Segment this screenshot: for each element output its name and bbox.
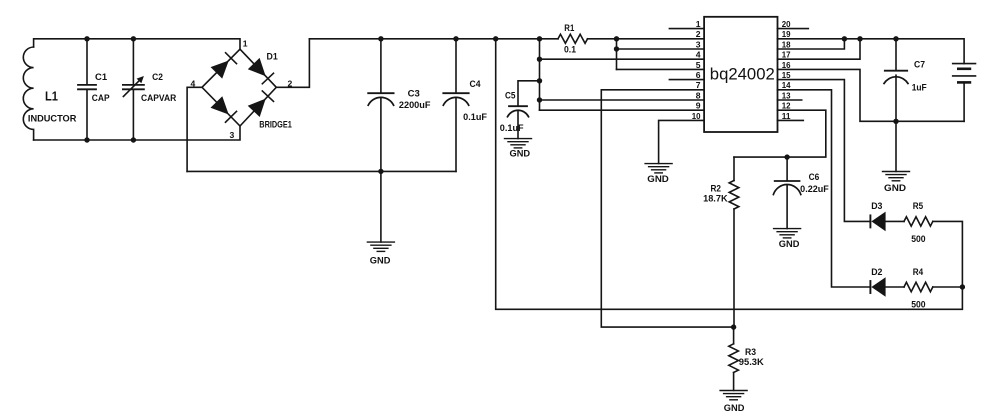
svg-text:19: 19 bbox=[782, 29, 791, 39]
wire C3 bottom to ground bbox=[380, 171, 382, 242]
svg-text:GND: GND bbox=[884, 183, 907, 193]
node dot pin8 tap bbox=[537, 97, 542, 102]
svg-text:0.1uF: 0.1uF bbox=[500, 123, 524, 133]
svg-text:R4: R4 bbox=[913, 267, 923, 277]
svg-text:C3: C3 bbox=[408, 89, 420, 99]
svg-text:0.1uF: 0.1uF bbox=[463, 112, 487, 122]
wire pin 10 to ground bbox=[659, 120, 705, 163]
svg-text:CAPVAR: CAPVAR bbox=[141, 93, 177, 103]
svg-text:1: 1 bbox=[243, 39, 248, 49]
pin 1 stub bbox=[669, 28, 704, 30]
label INDUCTOR bbox=[27, 113, 79, 123]
svg-text:13: 13 bbox=[782, 90, 791, 100]
diode D2 bbox=[870, 277, 904, 297]
svg-text:500: 500 bbox=[911, 300, 925, 310]
svg-text:500: 500 bbox=[911, 234, 925, 244]
svg-text:2: 2 bbox=[696, 29, 701, 39]
wire branch vertical x539 bbox=[539, 39, 541, 110]
svg-text:0.1: 0.1 bbox=[564, 45, 576, 55]
diode bridge bottom-left bbox=[211, 96, 237, 122]
wire bottom-left rail bbox=[34, 126, 240, 140]
svg-text:16: 16 bbox=[782, 60, 791, 70]
svg-text:GND: GND bbox=[510, 148, 531, 158]
node dot pin3 tap bbox=[614, 46, 619, 51]
wire pin 18 riser bbox=[778, 39, 845, 49]
node dot C5 tap bbox=[537, 78, 542, 83]
svg-text:GND: GND bbox=[370, 256, 391, 266]
node dot C2 bottom bbox=[131, 137, 136, 142]
svg-text:3: 3 bbox=[696, 39, 701, 49]
svg-text:7: 7 bbox=[696, 80, 701, 90]
svg-text:95.3K: 95.3K bbox=[739, 357, 765, 367]
svg-text:R1: R1 bbox=[564, 23, 574, 33]
diode bridge bottom-right bbox=[248, 91, 274, 117]
svg-text:18: 18 bbox=[782, 39, 791, 49]
node dot C2 top bbox=[131, 36, 136, 41]
svg-text:0.22uF: 0.22uF bbox=[800, 184, 829, 194]
node dot C1 top bbox=[84, 36, 89, 41]
resistor R5 bbox=[904, 217, 933, 226]
node dot D2 R4 junction bbox=[960, 284, 965, 289]
ground under R3 bbox=[720, 391, 747, 400]
wire pin12 line to C6 bbox=[786, 157, 788, 181]
wire bridge pin4 to lower rail bbox=[187, 87, 202, 171]
svg-text:8: 8 bbox=[696, 90, 701, 100]
resistor R4 bbox=[904, 282, 933, 291]
svg-text:2: 2 bbox=[288, 79, 293, 89]
ground under pin 10 bbox=[645, 164, 672, 173]
wire pin 17 riser bbox=[778, 39, 861, 59]
svg-text:D2: D2 bbox=[871, 267, 882, 277]
svg-text:D1: D1 bbox=[267, 51, 278, 61]
svg-text:5: 5 bbox=[696, 60, 701, 70]
svg-text:2200uF: 2200uF bbox=[399, 100, 431, 110]
svg-text:C1: C1 bbox=[95, 72, 107, 82]
svg-text:GND: GND bbox=[647, 174, 669, 184]
wire R5 to corner bbox=[933, 221, 963, 287]
wire pin 15 to D3 bbox=[778, 80, 871, 222]
svg-text:20: 20 bbox=[782, 19, 791, 29]
svg-text:C7: C7 bbox=[914, 59, 925, 69]
svg-text:11: 11 bbox=[782, 111, 791, 121]
diode D1 bridge top-right bbox=[248, 58, 274, 84]
wire top rail (bridge to R1) bbox=[309, 38, 558, 40]
svg-text:18.7K: 18.7K bbox=[703, 194, 728, 204]
node dot V+ vertical top bbox=[493, 36, 498, 41]
wire to pin 3 bbox=[617, 48, 705, 50]
wire to pin 5 bbox=[617, 68, 705, 70]
wire branch to pin 4 bbox=[540, 58, 705, 60]
wire R1 junction down to pin5 bbox=[616, 39, 618, 70]
bridge BRIDGE1 diamond bbox=[202, 49, 276, 126]
wire branch to pin 8 bbox=[540, 99, 705, 101]
svg-text:D3: D3 bbox=[871, 201, 882, 211]
ground under C7 bbox=[883, 172, 910, 181]
capacitor C2 (variable) bbox=[123, 39, 144, 140]
svg-text:4: 4 bbox=[696, 50, 701, 60]
capacitor C5 bbox=[508, 106, 529, 138]
diode bridge top-left bbox=[211, 53, 237, 79]
pin 11 stub bbox=[778, 119, 804, 121]
resistor R2 bbox=[729, 157, 739, 327]
capacitor C7 bbox=[884, 39, 908, 122]
wire pin 12 to R2 bbox=[734, 110, 826, 157]
wire pin 19 rail to battery bbox=[778, 39, 965, 64]
node dot branch top bbox=[537, 36, 542, 41]
wire lower mid rail bbox=[187, 170, 456, 172]
capacitor C3 bbox=[368, 39, 393, 172]
node dot pin17 riser bbox=[857, 36, 862, 41]
svg-text:R5: R5 bbox=[913, 201, 923, 211]
wire bridge pin2 to top rail bbox=[276, 39, 309, 88]
wire pin 16 to bottom rail bbox=[778, 69, 965, 121]
svg-text:INDUCTOR: INDUCTOR bbox=[28, 113, 77, 123]
node dot C4 top bbox=[453, 36, 458, 41]
svg-text:BRIDGE1: BRIDGE1 bbox=[259, 120, 292, 130]
capacitor C6 bbox=[773, 181, 800, 229]
svg-text:C6: C6 bbox=[809, 172, 820, 182]
svg-text:6: 6 bbox=[696, 70, 701, 80]
wire top-left rail bbox=[34, 39, 240, 49]
svg-text:10: 10 bbox=[692, 111, 701, 121]
wire branch to pin 9 bbox=[540, 109, 705, 111]
wire R1 to pin 2 bbox=[588, 38, 705, 40]
ground under C6 bbox=[774, 229, 801, 238]
svg-text:15: 15 bbox=[782, 70, 791, 80]
node dot C3 top bbox=[378, 36, 383, 41]
node dot after R1 bbox=[614, 36, 619, 41]
pin 13 stub bbox=[778, 99, 802, 101]
wire pin 7 to divider bbox=[601, 90, 733, 327]
ground under C5 bbox=[505, 139, 532, 148]
svg-text:4: 4 bbox=[191, 79, 196, 89]
node dot C6 tap bbox=[784, 154, 789, 159]
svg-text:bq24002: bq24002 bbox=[710, 65, 775, 84]
resistor R3 bbox=[729, 327, 739, 390]
svg-text:L1: L1 bbox=[45, 89, 58, 103]
svg-text:14: 14 bbox=[782, 80, 791, 90]
node dot C7 top bbox=[893, 36, 898, 41]
ground under C3 bbox=[367, 242, 394, 251]
resistor R1 bbox=[558, 34, 588, 43]
svg-text:CAP: CAP bbox=[92, 93, 110, 103]
pin 6 stub bbox=[669, 79, 704, 81]
diode D3 bbox=[870, 212, 904, 232]
node dot C3 bottom bbox=[378, 169, 383, 174]
wire pin 14 to D2 bbox=[778, 90, 871, 287]
node dot R2 R3 junction bbox=[731, 324, 736, 329]
node dot C1 bottom bbox=[84, 137, 89, 142]
svg-text:GND: GND bbox=[724, 403, 745, 413]
svg-text:C4: C4 bbox=[470, 79, 481, 89]
op-amp U1 bq24002 box bbox=[704, 17, 777, 132]
svg-text:9: 9 bbox=[696, 101, 701, 111]
capacitor C1 bbox=[78, 39, 96, 140]
svg-text:GND: GND bbox=[779, 239, 800, 249]
svg-text:3: 3 bbox=[230, 130, 235, 140]
wire main V+ vertical to bottom rail bbox=[496, 39, 963, 310]
capacitor C4 bbox=[443, 39, 468, 172]
wire R4 to junction bbox=[933, 286, 963, 288]
svg-text:1: 1 bbox=[696, 19, 701, 29]
svg-text:C5: C5 bbox=[505, 91, 516, 101]
pin 20 stub bbox=[778, 28, 809, 30]
wire C7 bottom to ground bbox=[895, 121, 897, 171]
node dot pin4 tap bbox=[537, 57, 542, 62]
svg-text:1uF: 1uF bbox=[912, 83, 927, 93]
svg-text:R2: R2 bbox=[711, 184, 722, 194]
battery BT1 bbox=[953, 64, 976, 122]
svg-text:R3: R3 bbox=[745, 347, 756, 357]
node dot C7 bottom bbox=[893, 119, 898, 124]
inductor L1 bbox=[23, 47, 33, 140]
wire branch to C5 bbox=[518, 81, 540, 106]
svg-text:C2: C2 bbox=[152, 72, 163, 82]
svg-text:12: 12 bbox=[782, 101, 791, 111]
svg-text:17: 17 bbox=[782, 50, 791, 60]
node dot pin18 riser bbox=[842, 36, 847, 41]
